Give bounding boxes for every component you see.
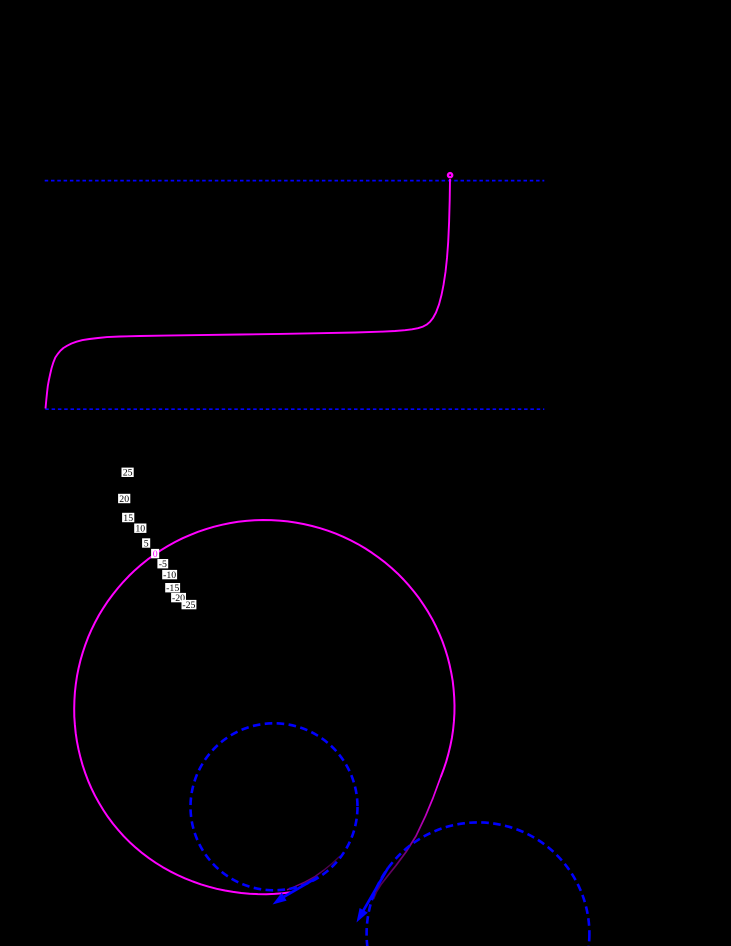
label 0 (151, 549, 159, 560)
svg-text:-5: -5 (159, 559, 167, 570)
svg-text:25: 25 (123, 468, 133, 479)
svg-text:-10: -10 (163, 570, 176, 581)
label 5 (142, 538, 150, 549)
arrow 1 (273, 877, 319, 905)
label 10 (134, 524, 146, 535)
arrow 2 (357, 868, 389, 923)
label -15 (165, 583, 180, 594)
inner dashed circle (191, 723, 358, 890)
outer dashed circle (367, 822, 590, 946)
upper bound dashed line (45, 180, 545, 182)
lower bound dashed line (45, 408, 544, 410)
svg-text:0: 0 (153, 549, 158, 560)
label -10 (162, 570, 177, 581)
svg-text:-25: -25 (182, 600, 195, 611)
end marker (448, 173, 452, 177)
label 25 (122, 468, 134, 479)
limit cycle loop (74, 520, 454, 894)
label -25 (182, 600, 197, 611)
diverging tail (374, 777, 441, 899)
svg-text:10: 10 (135, 524, 145, 535)
label 20 (118, 494, 130, 505)
svg-text:20: 20 (119, 494, 129, 505)
svg-text:15: 15 (123, 513, 133, 524)
label -20 (171, 593, 186, 604)
label -5 (157, 559, 168, 570)
svg-text:5: 5 (144, 538, 149, 549)
phase plane: start segment (dark) (287, 856, 340, 890)
time response curve (46, 179, 451, 409)
label 15 (122, 513, 134, 524)
